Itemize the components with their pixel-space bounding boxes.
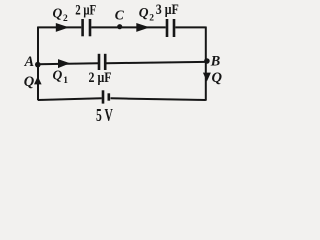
capacitor C3 2uF middle plates (98, 54, 101, 70)
svg-text:B: B (210, 54, 220, 70)
svg-text:2 μF: 2 μF (89, 70, 112, 86)
current arrow down on right rail (203, 73, 211, 82)
wire: left rail (37, 27, 39, 101)
svg-text:3 μF: 3 μF (156, 2, 179, 18)
svg-text:C: C (115, 7, 125, 22)
svg-text:2: 2 (149, 14, 154, 24)
svg-text:Q: Q (53, 5, 63, 20)
svg-text:2 μF: 2 μF (75, 3, 96, 19)
wire: middle branch left segment (38, 62, 98, 65)
wire: top rail mid segment (91, 26, 166, 28)
current arrow on top-right wire (136, 23, 149, 32)
node B (204, 58, 210, 64)
wire: top rail left segment (38, 26, 81, 28)
capacitor C2 3uF top plates (166, 19, 169, 37)
wire: bottom rail right segment (111, 98, 206, 100)
battery 5V short plate (108, 93, 111, 100)
wire: bottom rail left segment (38, 98, 102, 100)
node A (35, 62, 41, 68)
wire: top rail right segment (175, 26, 206, 28)
svg-text:Q: Q (24, 74, 35, 90)
svg-text:Q: Q (139, 5, 149, 20)
current arrow on middle wire (58, 59, 70, 68)
node C (117, 24, 122, 29)
wire: middle branch right segment (107, 62, 206, 63)
svg-text:2: 2 (63, 14, 68, 24)
svg-text:5 V: 5 V (96, 105, 113, 125)
svg-text:Q: Q (53, 68, 63, 83)
current arrow on top-left wire (56, 23, 69, 32)
battery 5V long plate (102, 90, 105, 103)
wire: right rail (205, 27, 207, 101)
current arrow up on left rail (34, 76, 42, 84)
svg-text:1: 1 (63, 76, 68, 86)
svg-text:A: A (24, 54, 34, 70)
capacitor C1 2uF top plates (81, 19, 84, 36)
svg-text:Q: Q (212, 70, 223, 86)
